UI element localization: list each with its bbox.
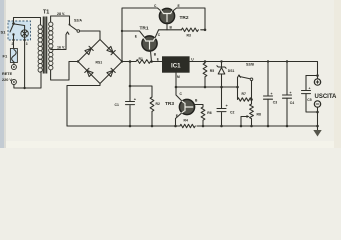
node M junction [175,86,178,89]
node rail output junction [204,60,207,63]
node plus column [316,74,319,77]
node R5 on M net [204,86,207,89]
transistor TR2 [159,8,174,23]
node top of switch [12,22,15,25]
node C3 ground [267,125,270,128]
resistor R6 [201,107,205,126]
svg-text:R4: R4 [184,119,188,123]
svg-text:RETE: RETE [2,72,13,76]
S1 enclosure dashed box [8,21,31,40]
node C1 branch [129,60,132,63]
wire junction to IC1 input [152,61,163,63]
node box exit 3 [23,39,25,41]
node R3 riser [204,29,207,32]
svg-text:C2: C2 [230,111,234,115]
node DS1 rail [220,60,222,62]
node C4 ground [286,125,289,128]
capacitor C1 [126,101,135,103]
node ground rail end [316,125,319,128]
switch S2/A [69,24,71,26]
node bridge left corner [77,60,79,62]
node R8 ground [250,125,253,128]
bridge diode bottom-left [85,68,93,76]
transformer T1 secondary winding [49,22,53,70]
node R2 ground [151,125,154,128]
wire TR1 emitter [122,31,144,37]
svg-text:S2/B: S2/B [246,62,254,66]
left scan edge strip [0,0,4,148]
node box exit 2 [12,39,14,41]
ground rail [67,125,180,127]
svg-text:F1: F1 [3,54,8,59]
wire R2 to ground rail [151,112,153,127]
svg-text:R6: R6 [207,111,211,115]
transformer T1 primary winding [38,25,42,72]
svg-text:C3: C3 [273,101,277,105]
resistor R2 [150,97,154,111]
node C5 bottom join [316,111,319,114]
wire C1 branch down [129,62,131,102]
resistor R4 in rail [180,124,195,127]
wire secondary 28V tap to S2A contact [51,16,70,24]
ground symbol [313,130,321,137]
transistor TR1 [142,36,157,51]
node DS1 / C2 on M net [220,86,223,89]
wire tee to R2 top [130,86,152,97]
wire secondary common to bridge left corner [51,62,78,81]
TR3 emitter wire [176,113,182,126]
resistor R3 [182,28,199,32]
wire lamp to box exit [24,38,26,41]
svg-text:R7: R7 [242,92,246,96]
svg-text:3: 3 [26,42,28,46]
node C3 rail [267,60,269,62]
node C2 ground [220,125,223,128]
wire mains top to transformer primary top [14,18,41,26]
wire IC1 M pin down [176,73,182,101]
TR1 collector wire [155,30,158,37]
svg-text:T1: T1 [43,10,49,16]
wire secondary 16V tap to S2A contact [51,35,66,50]
svg-text:28 V.: 28 V. [57,12,65,16]
wire R3 to riser [201,29,205,31]
node TR3 emitter ground [174,125,177,128]
bridge diode top-left [85,46,93,54]
TR2 emitter wire to output riser [172,8,205,30]
wire fuse to terminal [13,63,15,65]
node C1 ground [129,125,132,128]
output terminal plus [314,79,320,85]
node S2B riser on M net [236,86,239,89]
wire C5 top to plus column [306,75,318,77]
svg-text:IC1: IC1 [171,62,181,69]
diode DS1 [217,62,226,75]
fuse F1 [10,49,17,63]
bridge diode top-right [107,46,115,54]
R8 wiper arrow [241,117,248,127]
main rail bridge to R1 [122,61,136,63]
svg-text:+: + [309,87,311,91]
svg-text:R5: R5 [210,69,214,73]
svg-text:RS1: RS1 [96,60,103,64]
wire bridge bottom corner to ground rail [67,84,100,127]
wire box to fuse [13,40,15,49]
mains terminal top [11,65,16,70]
svg-text:C4: C4 [290,101,294,105]
TR3 base wire to R6 [195,105,203,108]
M net wire [176,78,238,88]
bridge rectifier RS1 [78,40,122,84]
node R7 R8 junction [250,98,253,101]
output terminal minus [314,101,320,107]
svg-text:M: M [177,75,180,79]
svg-text:S1: S1 [1,30,7,35]
wire C1 to ground rail [129,106,131,127]
lamp LN1 [21,30,28,37]
output rail to right [205,62,318,79]
wire minus terminal down [317,107,319,130]
node TR1 emitter tap [121,30,123,32]
svg-text:+: + [271,92,273,96]
wire terminal bottom to primary bottom [14,72,41,89]
transformer T1 core [43,17,48,74]
svg-text:R8: R8 [257,113,261,117]
node R1 TR1 base junction [150,60,153,63]
wire bridge plus riser to top rail [122,8,162,62]
node C1 / R2 tee [129,85,132,88]
wire lamp branch down [24,40,26,88]
capacitor C2 [221,87,223,109]
TR2 base wire [166,24,168,30]
svg-text:TR3: TR3 [165,101,174,107]
resistor R5 [203,63,207,87]
capacitor C3 [267,62,269,97]
svg-text:C1: C1 [115,103,119,107]
node wiper ground [240,125,243,128]
svg-text:TR1: TR1 [140,26,149,32]
node bridge right corner [121,60,123,62]
paper background [0,0,341,148]
node R6 ground [202,125,205,128]
svg-text:+: + [290,91,292,95]
svg-text:R2: R2 [156,102,160,106]
svg-text:USCITA: USCITA [315,94,338,100]
resistor R7 [238,87,252,101]
capacitor C5 [305,76,307,91]
svg-text:TR2: TR2 [180,15,189,21]
wire IC1 output to rail [190,61,205,63]
bridge diode bottom-right [107,68,115,76]
TR1 base wire [151,51,152,61]
mains terminal bottom [11,80,16,85]
node lamp branch joins [23,87,25,89]
node C4 rail [286,60,288,62]
svg-text:C5: C5 [307,98,311,102]
switch S1 bottom contact [12,33,14,35]
switch S1 blade [10,24,14,32]
svg-text:DS1: DS1 [228,69,235,73]
svg-text:S2/A: S2/A [74,19,82,23]
potentiometer R8 [250,100,254,127]
wire S2A to bridge top corner [80,31,100,40]
regulator IC1 [162,56,190,72]
transistor TR3 [179,99,194,114]
wire node to lamp branch [14,24,25,30]
svg-text:R1: R1 [139,57,143,61]
wire TR1 collector / TR2 base to R3 [159,29,182,31]
svg-text:R3: R3 [187,33,191,37]
wire S2B pivot down to R7/R8 node [251,81,253,100]
resistor R1 [136,60,150,64]
capacitor C4 [286,62,288,96]
svg-text:16 V.: 16 V. [57,45,65,49]
wire switch to box exit [13,35,15,41]
